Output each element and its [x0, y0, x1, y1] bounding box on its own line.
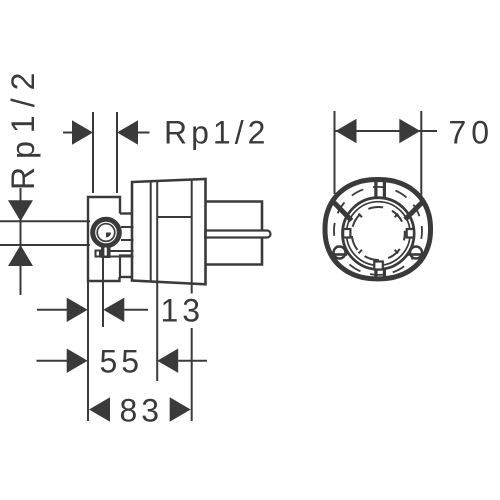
supply connection nut: dark annulus	[93, 219, 120, 246]
front view: inner dashed circle	[352, 207, 405, 260]
front view: inner keying tick upper-left	[359, 214, 363, 218]
pin slot	[104, 248, 106, 256]
front view: bottom tab	[374, 262, 383, 270]
spindle	[206, 231, 271, 238]
front view: bottom spoke left bar	[374, 269, 377, 280]
extension line x=88 below bracket	[87, 281, 89, 421]
dimension Rp1/2 top: arrow right-pointing	[72, 120, 93, 144]
dimension Rp1/2 left: extension line upper	[0, 220, 90, 222]
front view: outer dashed circle	[334, 187, 422, 275]
valve body: front plate line right	[191, 180, 193, 284]
front view: outer ring (circle flattened top and bottom)	[325, 180, 431, 279]
front view: inner thin ring	[347, 202, 411, 266]
supply pipe stub lower line	[121, 239, 134, 241]
bracket bottom notch	[120, 256, 133, 278]
small pin left	[96, 251, 101, 257]
dimension Rp1/2 left: arrow up-pointing	[8, 245, 33, 266]
dimension 70: arrow left-pointing	[336, 119, 357, 143]
dimension 83: arrow left-pointing	[89, 397, 110, 421]
extension line x=191 below body upper part	[191, 284, 193, 294]
dimension Rp1/2 left: dim line vertical	[20, 188, 22, 295]
valve body: inner vertical line a	[150, 181, 152, 281]
dimension 55: dim line right	[178, 360, 207, 362]
svg-text:83: 83	[120, 392, 164, 428]
front view: upper-left diagonal spoke	[334, 203, 352, 221]
dimension 55: arrow right-pointing	[67, 349, 88, 373]
extension line x=103 from pin	[102, 258, 104, 327]
svg-text:55: 55	[100, 343, 144, 379]
lower connector line upper	[110, 250, 134, 252]
front view: right screw	[410, 247, 422, 259]
svg-text:Rp1/2: Rp1/2	[5, 65, 41, 190]
dimension Rp1/2 top: arrow left-pointing	[117, 120, 138, 144]
svg-text:13: 13	[161, 293, 205, 329]
lower connector line lower	[110, 256, 134, 258]
dimension 70: dim line	[335, 130, 438, 132]
front view: inner keying tick lower-left	[359, 250, 363, 254]
supply connection nut: inner thin ring	[97, 224, 115, 242]
svg-text:Rp1/2: Rp1/2	[164, 115, 269, 151]
front view: right tab	[407, 229, 414, 238]
supply pipe stub upper line	[121, 226, 134, 228]
dimension 70: extension line left	[334, 111, 336, 194]
front view: right screw slot	[408, 253, 423, 256]
mounting bracket	[88, 197, 120, 281]
bracket bottom step	[120, 276, 133, 278]
front view: inner keying tick lower-right	[395, 250, 399, 254]
valve body: front plate line left	[156, 181, 158, 282]
front view: left screw slot	[332, 253, 347, 256]
valve body: main cylinder side view	[132, 179, 206, 284]
dimension Rp1/2 top: extension line 2	[116, 112, 118, 193]
front view: top spoke right bar	[383, 182, 386, 199]
svg-text:70: 70	[449, 114, 495, 150]
front view: inner keying tick upper-right	[395, 214, 399, 218]
dimension 13: arrow left-pointing	[103, 298, 124, 322]
supply connection notch marker	[106, 233, 111, 238]
rear cylinder	[206, 202, 263, 265]
dimension 13: dim line left	[37, 309, 67, 311]
pin below nut	[101, 247, 111, 259]
bracket top step	[120, 212, 133, 214]
dimension Rp1/2 top: dim line right	[138, 132, 150, 134]
front view: left tab	[343, 229, 350, 238]
front view: inner solid ring	[343, 198, 415, 270]
front view: upper-right diagonal spoke	[405, 203, 422, 220]
dimension 70: extension line right	[420, 111, 422, 198]
valve body: window bottom edge	[157, 216, 192, 218]
dimension Rp1/2 left: arrow down-pointing	[8, 200, 33, 221]
extension line x=191 below text part	[191, 328, 193, 421]
dimension 13: dim line right	[124, 309, 148, 311]
front view: top spoke left bar	[374, 182, 377, 199]
extension line x=157 below body	[156, 282, 158, 381]
dimension Rp1/2 top: dim line left	[63, 132, 72, 134]
body right edge over spindle	[204, 229, 207, 239]
dimension 55: arrow left-pointing	[157, 349, 178, 373]
dimension 13: arrow right-pointing	[67, 298, 88, 322]
dimension 70: arrow right-pointing	[399, 119, 420, 143]
dimension 55: dim line left	[37, 360, 68, 362]
dimension Rp1/2 left: extension line lower	[0, 244, 90, 246]
front view: left screw	[334, 247, 346, 259]
dimension Rp1/2 top: extension line 1	[92, 112, 94, 193]
dimension 83: arrow right-pointing	[170, 397, 191, 421]
front view: bottom spoke right bar	[383, 269, 386, 280]
